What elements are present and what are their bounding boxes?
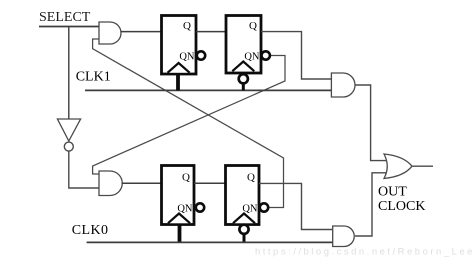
svg-text:CLOCK: CLOCK: [378, 199, 425, 214]
FF4 inverted-clock bubble: [239, 225, 248, 234]
wire CLK1 line: [85, 89, 331, 91]
flip-flop FF2 body: [226, 16, 261, 74]
svg-text:https://blog.csdn.net/Reborn_L: https://blog.csdn.net/Reborn_Lee: [255, 247, 474, 258]
svg-text:QN: QN: [179, 52, 195, 63]
wire inverter output to U3 lower input: [69, 151, 99, 188]
FF3 clock stem: [178, 225, 182, 243]
AND gate U4 (bottom-right): [333, 226, 355, 247]
svg-text:SELECT: SELECT: [39, 10, 91, 25]
FF3 clock triangle: [168, 214, 190, 224]
svg-text:OUT: OUT: [378, 185, 407, 200]
wire U1 output to FF1 D: [121, 31, 162, 33]
FF2 clock triangle: [232, 62, 254, 72]
svg-text:CLK0: CLK0: [72, 223, 109, 238]
AND gate U2 (top-right): [331, 73, 355, 97]
svg-text:Q: Q: [182, 172, 190, 184]
FF4 QN bubble: [260, 203, 268, 211]
wire FF4 Q to U4 upper input: [259, 183, 333, 229]
wire U4 output to OR U5 lower input: [355, 173, 387, 236]
flip-flop FF3 body: [162, 166, 195, 225]
inverter U6 triangle: [57, 119, 80, 141]
FF4 clock stem: [243, 234, 246, 243]
OR gate U5: [384, 154, 412, 179]
FF4 clock triangle: [233, 214, 255, 224]
inverter U6 bubble: [64, 142, 73, 151]
flip-flop FF4 body: [226, 166, 260, 225]
wire U2 output to OR U5 upper input: [355, 85, 387, 161]
wire U3 output to FF3 D: [122, 182, 162, 184]
svg-text:Q: Q: [249, 20, 257, 32]
wire FF2 QN to U3 upper input (diagonal down-left): [93, 56, 285, 175]
svg-text:Q: Q: [247, 172, 255, 184]
FF2 clock stem: [242, 83, 245, 90]
wire FF1 Q to FF2 D: [196, 31, 226, 33]
AND gate U3 (bottom-left): [99, 171, 122, 196]
FF2 inverted-clock bubble: [239, 74, 248, 83]
wire CLK0 line: [87, 241, 333, 243]
wire U5 output: [412, 165, 433, 167]
svg-text:CLK1: CLK1: [76, 70, 111, 85]
wire FF2 Q to U2 upper input: [261, 32, 331, 79]
AND gate U1 (top-left): [99, 22, 121, 44]
FF1 clock triangle: [168, 63, 190, 73]
wire FF3 Q to FF4 D: [194, 182, 226, 184]
FF2 QN bubble: [262, 51, 270, 59]
FF3 QN bubble: [196, 203, 204, 211]
FF1 clock stem: [176, 74, 180, 90]
wire SELECT input to AND U1: [39, 26, 99, 28]
svg-text:QN: QN: [244, 52, 260, 63]
wire SELECT branch down to inverter: [68, 27, 70, 120]
wire U1 lower input from FF4 QN (diagonal up-left): [93, 39, 284, 208]
FF1 QN bubble: [197, 51, 205, 59]
svg-text:Q: Q: [183, 20, 191, 32]
flip-flop FF1 body: [162, 16, 197, 75]
